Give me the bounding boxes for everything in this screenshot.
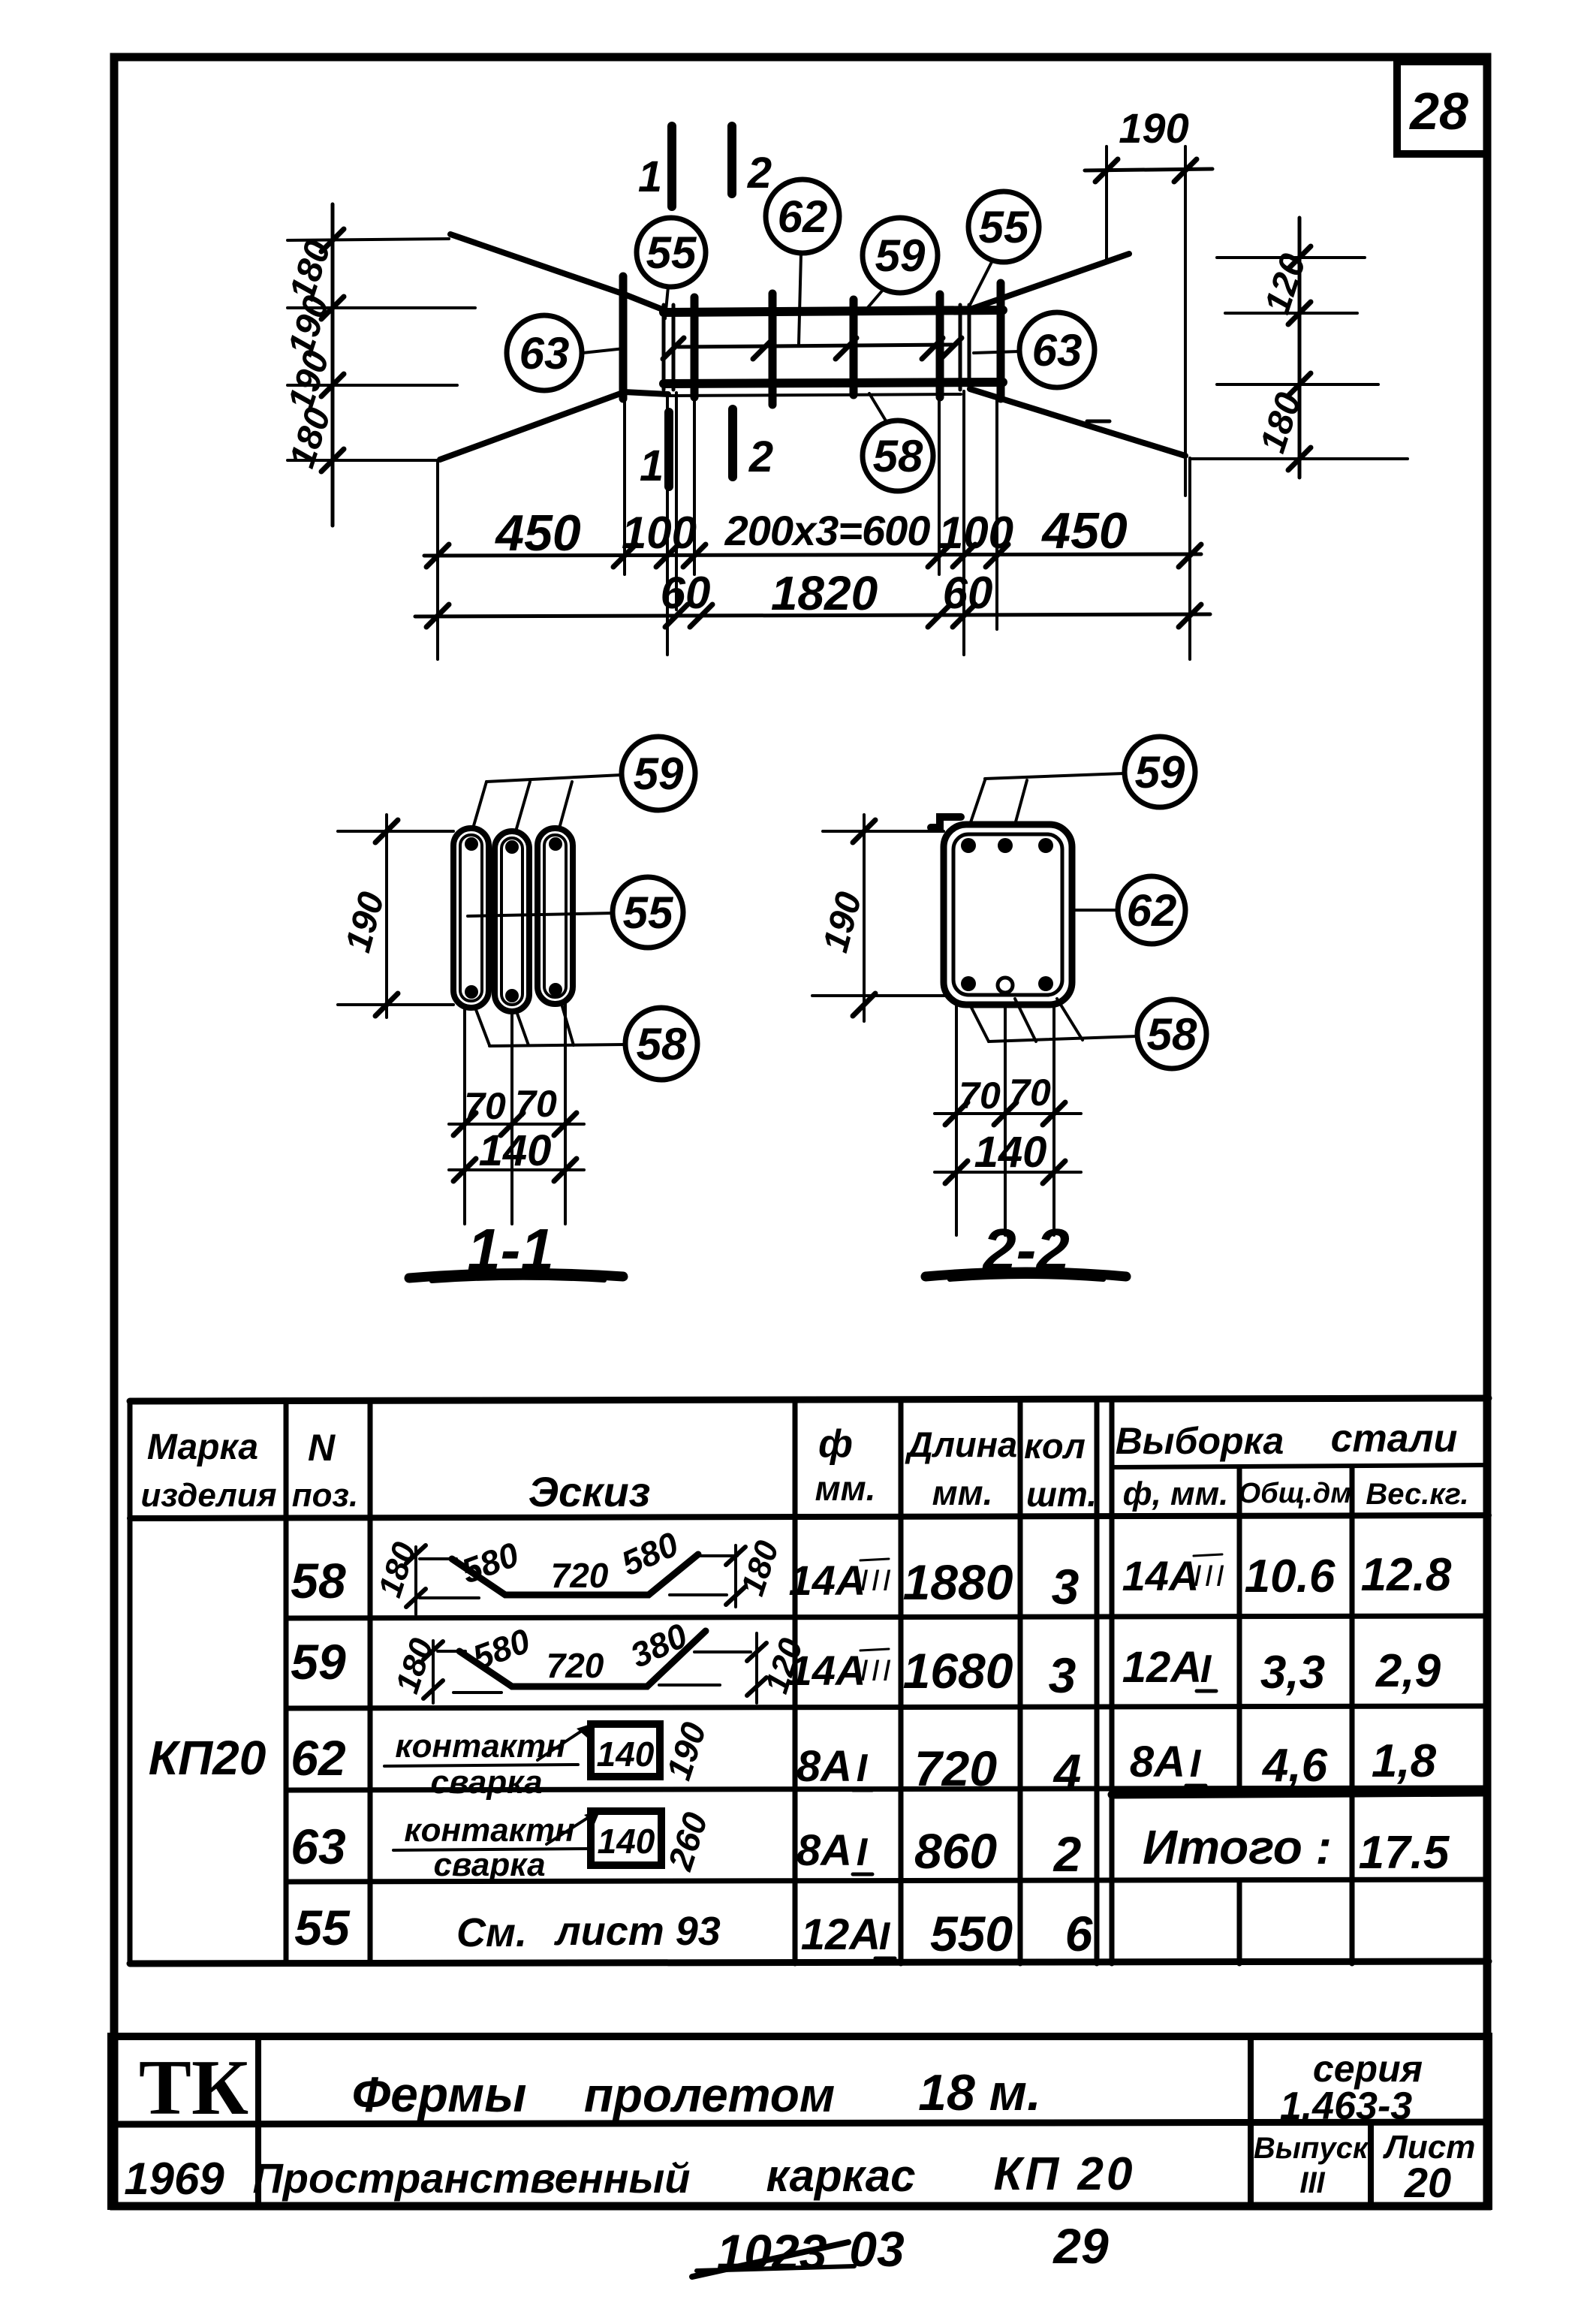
dim line 70/70 <box>935 1112 1081 1115</box>
svg-text:62: 62 <box>778 191 828 242</box>
svg-text:Длина: Длина <box>905 1424 1017 1464</box>
svg-text:6: 6 <box>1065 1906 1094 1961</box>
vyborka sub column 1 <box>1237 1467 1242 1795</box>
table outer top <box>130 1398 1489 1401</box>
svg-text:лист 93: лист 93 <box>553 1909 721 1954</box>
table left edge <box>128 1401 133 1964</box>
svg-text:мм.: мм. <box>932 1473 993 1512</box>
svg-text:58: 58 <box>291 1553 346 1608</box>
callout circle 55 left <box>637 218 706 287</box>
bottom annotation 1023-03 <box>692 2221 905 2280</box>
svg-text:03: 03 <box>849 2221 904 2277</box>
loop 3 bar dots <box>549 837 562 851</box>
svg-text:58: 58 <box>1147 1009 1197 1060</box>
row line 59/62 <box>286 1706 1489 1708</box>
dim 190 vertical <box>385 815 388 1017</box>
svg-text:63: 63 <box>291 1819 345 1874</box>
svg-text:I: I <box>1200 1647 1212 1691</box>
section mark 2 top <box>727 126 736 194</box>
bottom extension lines <box>465 1004 565 1224</box>
svg-text:кол: кол <box>1024 1426 1086 1466</box>
values row 62 <box>796 1735 1437 1799</box>
values row 55 <box>801 1906 1094 1961</box>
title block mid horizontal <box>111 2122 1489 2124</box>
svg-text:2: 2 <box>748 433 773 481</box>
loop 2 outer <box>495 831 529 1011</box>
svg-text:I: I <box>879 1915 891 1958</box>
sketch row 58 <box>372 1524 786 1614</box>
svg-text:Выпуск: Выпуск <box>1254 2132 1369 2165</box>
left dim line <box>331 204 335 526</box>
svg-text:70: 70 <box>464 1085 506 1127</box>
svg-text:2: 2 <box>747 149 772 197</box>
band bottom edge <box>664 382 1003 384</box>
svg-text:4,6: 4,6 <box>1261 1740 1328 1792</box>
loop 1 outer <box>453 828 489 1008</box>
values row 58 <box>789 1549 1452 1614</box>
transverse bar 1 <box>619 276 628 399</box>
svg-text:200x3=600: 200x3=600 <box>724 507 931 554</box>
transverse bar 3 <box>769 294 777 405</box>
svg-text:КП 20: КП 20 <box>994 2148 1136 2200</box>
truss top chord right slope <box>970 254 1129 309</box>
loop 3 outer <box>538 828 573 1004</box>
stirrup outer <box>944 824 1072 1005</box>
svg-text:55: 55 <box>646 228 697 278</box>
dim line 140 <box>449 1168 584 1171</box>
svg-text:100: 100 <box>938 508 1013 558</box>
sheet number box <box>1397 62 1487 154</box>
svg-text:55: 55 <box>979 202 1030 252</box>
table right edge <box>1486 1398 1492 1961</box>
section mark 1 top <box>667 126 676 206</box>
svg-text:1: 1 <box>638 152 662 201</box>
svg-text:См.: См. <box>456 1910 527 1955</box>
svg-text:720: 720 <box>547 1646 604 1685</box>
stirrup top hook <box>931 817 961 827</box>
svg-text:шт.: шт. <box>1026 1475 1097 1514</box>
svg-text:190: 190 <box>1119 104 1188 152</box>
double separator <box>1095 1401 1100 1964</box>
svg-text:550: 550 <box>930 1906 1013 1961</box>
title block vertical list <box>1368 2124 1374 2206</box>
mid line hooks <box>663 338 962 359</box>
svg-text:18 м.: 18 м. <box>918 2064 1041 2121</box>
svg-text:2,9: 2,9 <box>1375 1645 1441 1697</box>
callout circle 55 <box>613 877 683 948</box>
svg-text:100: 100 <box>622 508 697 558</box>
callout circle 62 <box>1118 876 1185 944</box>
svg-text:1.463-3: 1.463-3 <box>1280 2084 1412 2128</box>
svg-text:12А: 12А <box>1122 1643 1202 1692</box>
callout circle 59 <box>622 737 695 810</box>
title block vertical TK <box>255 2036 261 2206</box>
svg-text:изделия: изделия <box>140 1477 276 1514</box>
callout circle 58 <box>863 421 933 491</box>
svg-text:I: I <box>857 1747 869 1790</box>
svg-text:серия: серия <box>1313 2048 1423 2090</box>
svg-text:3,3: 3,3 <box>1260 1647 1325 1699</box>
svg-text:14А: 14А <box>1122 1552 1200 1599</box>
table outer bottom <box>130 1961 1489 1964</box>
svg-text:60: 60 <box>943 568 993 618</box>
svg-text:Пространственный: Пространственный <box>253 2154 691 2202</box>
svg-text:Эскиз: Эскиз <box>528 1468 651 1515</box>
transverse bar 4 <box>850 300 858 395</box>
svg-text:1880: 1880 <box>903 1554 1013 1610</box>
column line eskiz <box>368 1401 373 1964</box>
svg-text:3: 3 <box>1049 1647 1077 1703</box>
svg-text:сварка: сварка <box>433 1846 545 1883</box>
svg-text:стали: стали <box>1331 1417 1458 1460</box>
svg-text:860: 860 <box>914 1823 997 1879</box>
transverse bar 2 <box>691 297 699 397</box>
svg-text:29: 29 <box>1052 2218 1109 2274</box>
loop 1 inner <box>460 835 482 1001</box>
svg-text:450: 450 <box>494 505 581 562</box>
svg-text:8А: 8А <box>796 1826 852 1875</box>
svg-text:поз.: поз. <box>292 1477 358 1514</box>
svg-text:1: 1 <box>640 442 664 490</box>
leader to 62 <box>1074 909 1117 912</box>
svg-text:каркас: каркас <box>766 2151 915 2201</box>
svg-text:59: 59 <box>1135 747 1185 797</box>
svg-text:1680: 1680 <box>903 1643 1013 1699</box>
column line poz <box>284 1401 289 1964</box>
callout circle 58 <box>1137 999 1206 1069</box>
svg-text:ф, мм.: ф, мм. <box>1123 1476 1229 1512</box>
svg-text:58: 58 <box>637 1019 687 1069</box>
end plate right (double line) <box>959 305 962 390</box>
svg-text:63: 63 <box>1032 325 1083 375</box>
values row 59 <box>789 1643 1441 1703</box>
svg-text:70: 70 <box>515 1083 557 1125</box>
bottom dim line 1 <box>424 554 1201 556</box>
left extension lines <box>288 239 475 460</box>
callout circle 59 <box>1125 737 1195 807</box>
vyborka sub column 2 <box>1350 1467 1355 1964</box>
sketch row 59 <box>389 1615 810 1703</box>
dim line 140 <box>935 1171 1081 1174</box>
svg-text:28: 28 <box>1408 82 1468 140</box>
svg-text:ф: ф <box>818 1422 853 1466</box>
svg-text:Фермы: Фермы <box>352 2066 527 2122</box>
row line 63/55 <box>286 1879 1489 1882</box>
stray mark right slope <box>1087 420 1110 424</box>
svg-text:12А: 12А <box>801 1910 881 1959</box>
svg-text:59: 59 <box>291 1634 346 1690</box>
svg-text:12.8: 12.8 <box>1361 1549 1452 1601</box>
row line 62/63 <box>286 1788 1489 1790</box>
svg-text:пролетом: пролетом <box>584 2068 835 2122</box>
sketch row 63 <box>393 1807 715 1883</box>
svg-text:Итого :: Итого : <box>1143 1820 1332 1874</box>
svg-text:140: 140 <box>974 1128 1047 1177</box>
svg-text:140: 140 <box>598 1822 655 1861</box>
svg-text:720: 720 <box>551 1556 609 1595</box>
svg-text:Марка: Марка <box>147 1427 258 1467</box>
svg-text:55: 55 <box>623 888 674 938</box>
leader to 59 <box>970 773 1124 824</box>
svg-text:14А: 14А <box>789 1557 866 1604</box>
svg-text:1820: 1820 <box>771 566 878 620</box>
svg-text:62: 62 <box>1127 885 1177 936</box>
end plate left (double line) <box>662 305 666 390</box>
dim 190 vertical <box>863 815 866 1021</box>
svg-text:III: III <box>860 1654 893 1687</box>
svg-text:63: 63 <box>519 328 570 378</box>
svg-text:58: 58 <box>873 431 923 481</box>
callout circle 63 right <box>1019 312 1095 387</box>
stirrup inner <box>953 834 1062 995</box>
svg-text:N: N <box>308 1427 336 1469</box>
top right dim 190 <box>1085 169 1212 170</box>
svg-text:III: III <box>860 1564 893 1597</box>
leader to 55 <box>468 913 613 916</box>
svg-text:4: 4 <box>1052 1744 1082 1799</box>
svg-text:I: I <box>1190 1742 1202 1786</box>
svg-text:140: 140 <box>479 1126 552 1175</box>
svg-text:ТК: ТК <box>139 2043 248 2131</box>
svg-text:17.5: 17.5 <box>1359 1827 1450 1879</box>
dim line 70/70 <box>449 1123 584 1126</box>
svg-text:14А: 14А <box>789 1647 866 1694</box>
band mid line <box>678 345 952 347</box>
callout circle 63 left <box>507 315 582 390</box>
callout circle 58 <box>625 1008 697 1080</box>
svg-text:140: 140 <box>597 1735 655 1774</box>
bottom dim line 2 <box>415 614 1210 616</box>
truss top chord left slope <box>450 234 668 312</box>
section mark 1 bottom <box>664 412 673 487</box>
loop 1 bar dots <box>465 837 478 851</box>
transverse bar 6 <box>997 283 1005 399</box>
bar dots <box>961 838 976 853</box>
section mark 2 bottom <box>728 409 737 477</box>
svg-text:3: 3 <box>1052 1559 1080 1614</box>
svg-text:450: 450 <box>1040 502 1128 559</box>
svg-text:Вес.кг.: Вес.кг. <box>1366 1478 1468 1511</box>
band top edge <box>664 310 1003 312</box>
callout circle 62 <box>766 179 839 253</box>
transverse bar 5 <box>936 294 944 397</box>
svg-text:I: I <box>857 1831 869 1874</box>
svg-text:70: 70 <box>1009 1072 1051 1114</box>
column line kol <box>1018 1401 1023 1964</box>
svg-text:59: 59 <box>875 231 926 281</box>
title underline <box>926 1272 1126 1277</box>
sketch row 62 <box>384 1717 714 1801</box>
loop 2 inner <box>501 838 522 1005</box>
truss bottom chord right slope <box>970 389 1185 456</box>
svg-text:1,8: 1,8 <box>1372 1735 1437 1787</box>
svg-text:1969: 1969 <box>124 2154 224 2204</box>
truss bottom chord left slope <box>440 392 668 460</box>
band lower thin edge <box>668 394 961 396</box>
column line dlina <box>899 1401 904 1964</box>
title block vertical seria <box>1248 2036 1254 2206</box>
svg-text:2: 2 <box>1052 1826 1082 1882</box>
svg-text:мм.: мм. <box>815 1469 876 1508</box>
header bottom line <box>130 1515 1489 1518</box>
itogo thick line <box>1112 1792 1485 1795</box>
svg-text:8А: 8А <box>1130 1738 1185 1786</box>
svg-text:20: 20 <box>1404 2159 1451 2206</box>
svg-text:59: 59 <box>634 749 684 799</box>
column line f mm <box>793 1401 798 1964</box>
svg-text:III: III <box>1193 1560 1227 1593</box>
svg-text:720: 720 <box>914 1741 997 1796</box>
vyborka split line <box>1112 1465 1489 1467</box>
leader to 58 <box>970 999 1137 1041</box>
left dim ticks <box>321 229 344 472</box>
title underline <box>409 1273 623 1278</box>
svg-text:60: 60 <box>661 568 711 618</box>
leader to 58 <box>475 1004 625 1046</box>
svg-text:сварка: сварка <box>430 1764 542 1801</box>
title block outer <box>111 2036 1489 2206</box>
svg-text:III: III <box>1299 2166 1325 2199</box>
values row 63 <box>796 1820 1450 1882</box>
svg-text:10.6: 10.6 <box>1245 1551 1336 1602</box>
loop 3 inner <box>544 835 566 997</box>
leader to 59 <box>473 775 622 831</box>
svg-text:70: 70 <box>959 1075 1001 1117</box>
svg-text:Выборка: Выборка <box>1116 1420 1284 1462</box>
bottom dim extension lines <box>438 391 1190 659</box>
svg-text:62: 62 <box>291 1730 346 1786</box>
callout circle 59 <box>863 218 938 293</box>
callout circle 55 right <box>968 191 1039 262</box>
loop 2 bar dots <box>505 840 519 854</box>
svg-text:КП20: КП20 <box>149 1731 267 1785</box>
svg-text:8А: 8А <box>796 1742 852 1791</box>
svg-text:55: 55 <box>294 1900 351 1955</box>
bottom extension lines <box>956 1005 1054 1235</box>
svg-text:Общ.дм: Общ.дм <box>1239 1478 1352 1509</box>
row line 58/59 <box>286 1616 1489 1618</box>
right dim line <box>1298 218 1302 478</box>
